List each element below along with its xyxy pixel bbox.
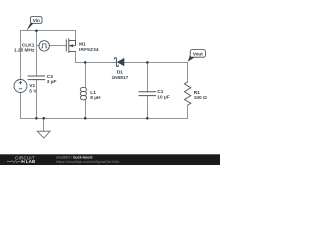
svg-text:whatfield / buck-boost: whatfield / buck-boost xyxy=(56,155,93,159)
svg-text:C3: C3 xyxy=(47,74,53,80)
svg-text:M1: M1 xyxy=(79,42,86,48)
svg-text:C1: C1 xyxy=(157,89,163,95)
svg-text:V1: V1 xyxy=(29,83,35,89)
svg-text:R1: R1 xyxy=(194,90,200,96)
svg-text:Vout: Vout xyxy=(193,51,203,56)
svg-text:Vin: Vin xyxy=(33,18,40,23)
svg-text:100 Ω: 100 Ω xyxy=(194,95,207,101)
svg-text:3 µF: 3 µF xyxy=(47,79,57,85)
svg-text:LAB: LAB xyxy=(26,159,36,164)
svg-text:5 V: 5 V xyxy=(29,88,37,94)
svg-text:8 µH: 8 µH xyxy=(90,95,101,101)
svg-text:1.25 MHz: 1.25 MHz xyxy=(14,48,35,54)
svg-text:https://circuitlab.com/c49yeah: https://circuitlab.com/c49yeah2m7x5n xyxy=(56,160,120,164)
svg-text:10 µF: 10 µF xyxy=(157,95,169,101)
svg-text:L1: L1 xyxy=(90,90,96,96)
svg-text:CLK1: CLK1 xyxy=(22,42,35,48)
svg-text:IRF9Z34: IRF9Z34 xyxy=(79,47,99,53)
svg-text:1N5817: 1N5817 xyxy=(111,75,128,81)
svg-text:D1: D1 xyxy=(117,70,123,76)
